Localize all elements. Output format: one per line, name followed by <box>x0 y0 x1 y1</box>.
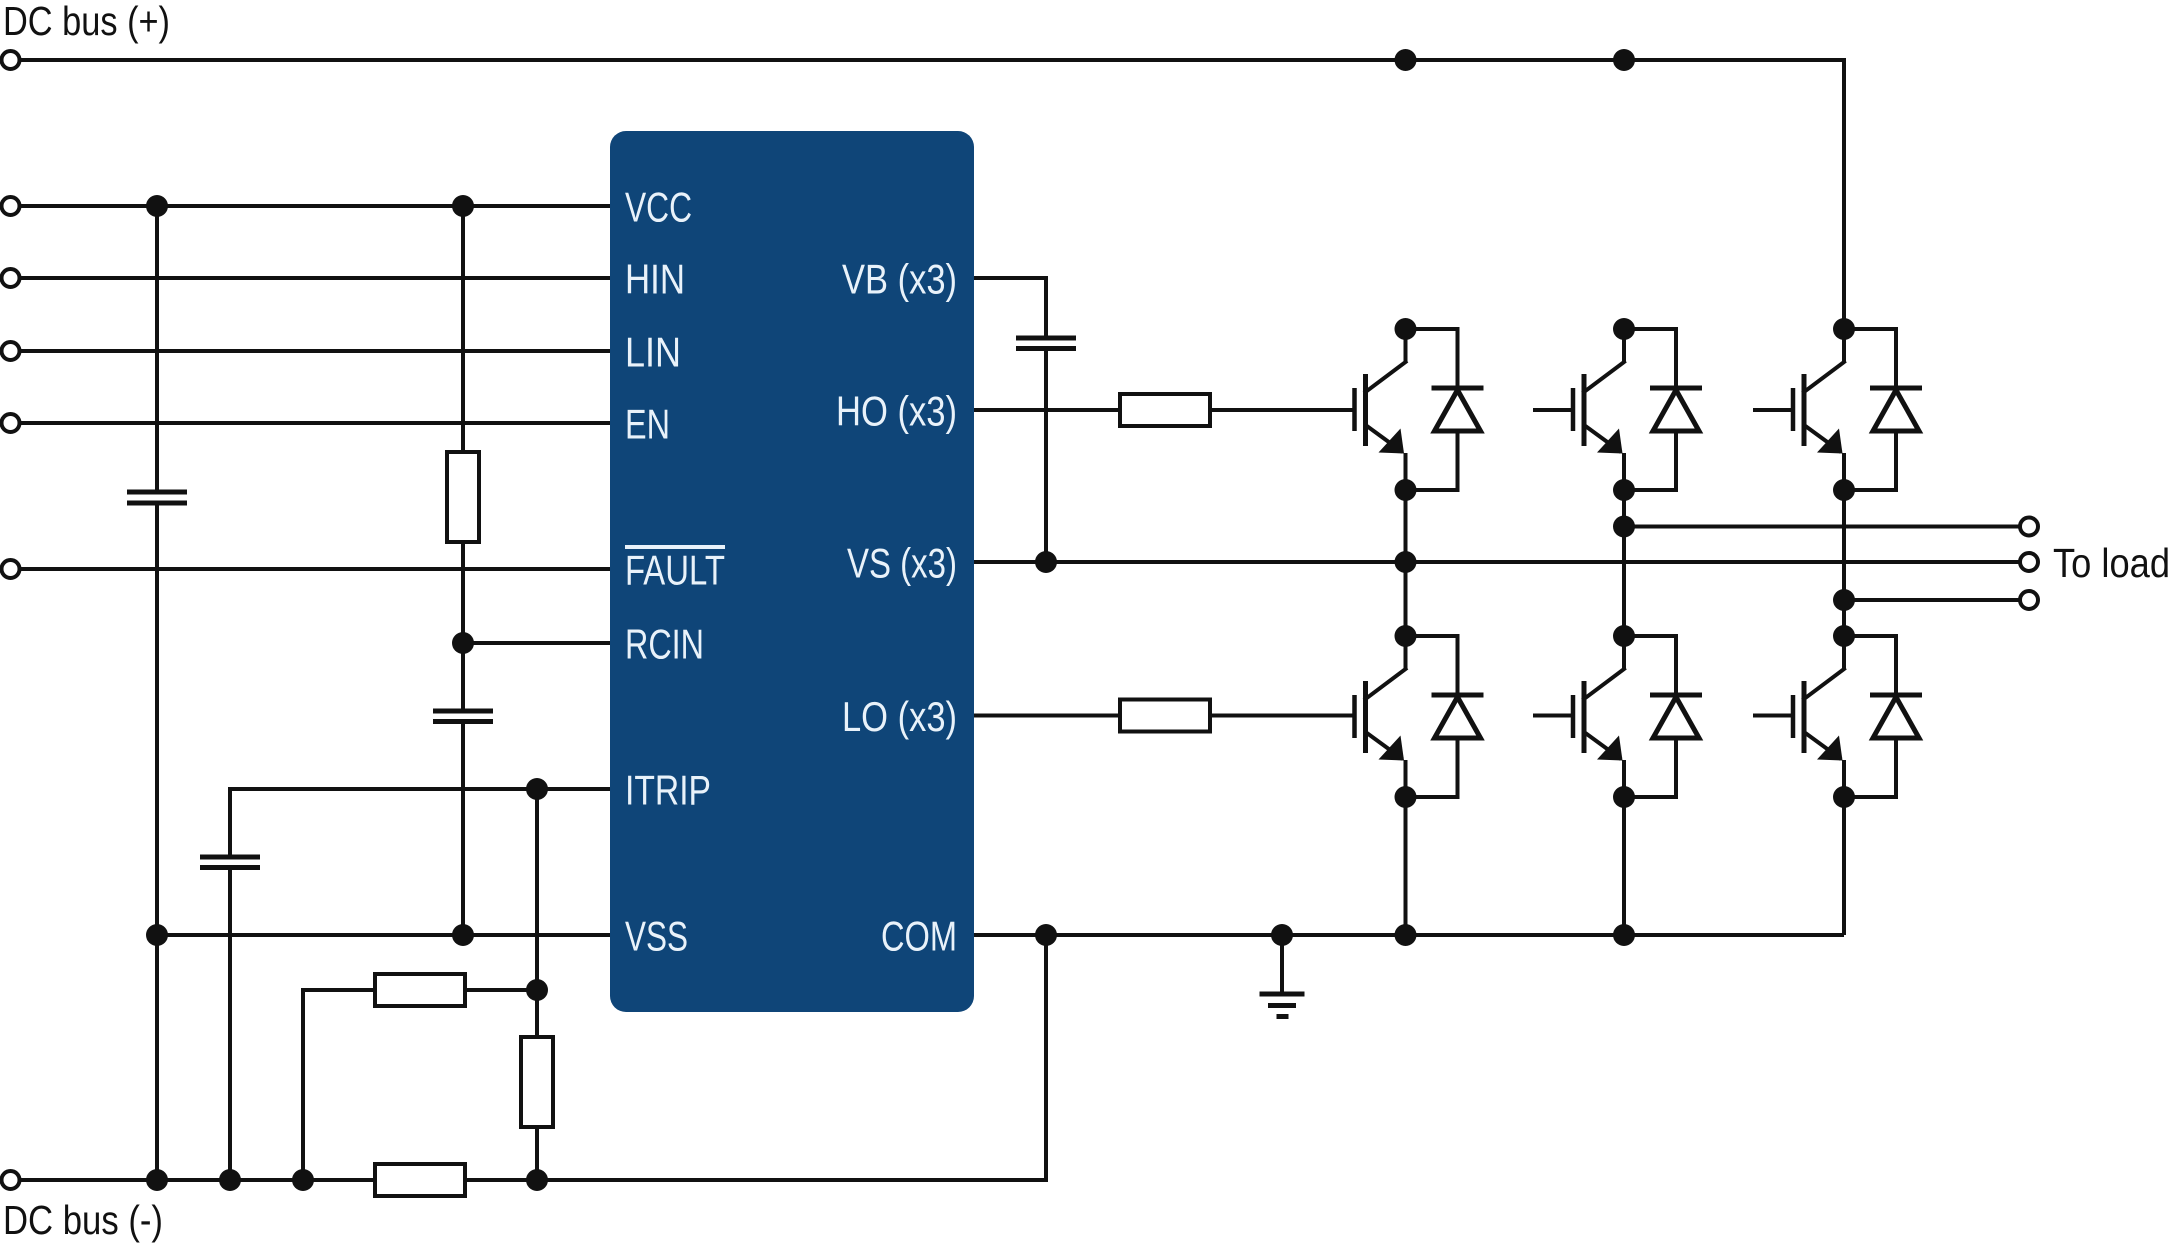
wire ITRIP line with corner <box>230 789 610 857</box>
diode D1 (free-wheeling, antiparallel to Q1) <box>1406 329 1484 490</box>
wire DC- left segment <box>20 1178 376 1182</box>
junction dot COM / DC- feed <box>1035 924 1057 946</box>
svg-text:DC bus (+): DC bus (+) <box>3 0 170 44</box>
transistor Q2 (IGBT) <box>1533 329 1624 490</box>
junction dot V5 / DC- line <box>292 1169 314 1191</box>
junction dot Q2 emitter <box>1613 479 1635 501</box>
svg-text:FAULT: FAULT <box>625 547 725 594</box>
terminal EN input <box>2 414 20 432</box>
junction dot leg3 output <box>1833 589 1855 611</box>
wire VSS line <box>157 933 610 937</box>
transistor Q3 (IGBT) <box>1753 329 1844 490</box>
terminal VCC input <box>2 197 20 215</box>
wire V2 mid segment <box>461 542 465 711</box>
junction dot Q4 collector <box>1395 625 1417 647</box>
junction dot VCC / R1 branch <box>452 195 474 217</box>
capacitor C3 (ITRIP filter) <box>200 857 260 868</box>
wire leg1 VS to lower collector <box>1404 562 1408 636</box>
junction dot V1 / VSS line <box>146 924 168 946</box>
junction dot COM / leg1 <box>1395 924 1417 946</box>
junction dot DC+ / leg2 <box>1613 49 1635 71</box>
wire COM rail <box>974 933 1844 937</box>
svg-text:VS (x3): VS (x3) <box>847 540 957 587</box>
wire phase-2 output line <box>1624 525 2020 529</box>
terminal FAULT output <box>2 560 20 578</box>
junction dot Q6 emitter <box>1833 786 1855 808</box>
diode D2 (free-wheeling, antiparallel to Q2) <box>1624 329 1702 490</box>
wire leg3 lower emitter to COM <box>1842 797 1846 935</box>
junction dot V3 / DC- line <box>219 1169 241 1191</box>
junction dot Q2 collector <box>1613 318 1635 340</box>
junction dot Q3 emitter <box>1833 479 1855 501</box>
resistor R2 (horizontal, shunt sense) <box>375 974 465 1006</box>
wire V4 segment above R3 <box>535 990 539 1037</box>
transistor Q4 (IGBT) <box>1355 636 1406 797</box>
svg-text:VCC: VCC <box>625 184 692 231</box>
junction dot VCC / C1 branch <box>146 195 168 217</box>
junction dot Q6 collector <box>1833 625 1855 647</box>
wire phase-3 output line <box>1844 598 2020 602</box>
wire FAULT line <box>20 567 611 571</box>
wire leg2 lower emitter to COM <box>1622 797 1626 935</box>
wire V2 bottom segment <box>461 722 465 936</box>
wire VCC input line <box>20 204 611 208</box>
ground symbol <box>1260 935 1305 1017</box>
svg-text:LIN: LIN <box>625 329 681 376</box>
resistor R6 (LO gate resistor) <box>1120 700 1210 732</box>
transistor Q5 (IGBT) <box>1533 636 1624 797</box>
wire leg3 output to lower collector <box>1842 600 1846 636</box>
junction dot Q3 collector <box>1833 318 1855 340</box>
junction dot RCIN node <box>452 632 474 654</box>
wire V3 lower segment <box>228 868 232 1181</box>
junction dot Q5 collector <box>1613 625 1635 647</box>
wire V2 top segment <box>461 206 465 452</box>
junction dot Q4 emitter <box>1395 786 1417 808</box>
svg-text:LO (x3): LO (x3) <box>842 693 957 740</box>
resistor R4 (in DC- rail, shunt) <box>375 1164 465 1196</box>
wire VB lead with corner <box>974 278 1046 336</box>
wire LO lead from IC <box>974 714 1120 718</box>
resistor R5 (HO gate resistor) <box>1120 394 1210 426</box>
capacitor C4 (bootstrap VB-VS) <box>1016 338 1076 349</box>
svg-text:VB (x3): VB (x3) <box>842 256 957 303</box>
capacitor C1 (VCC-VSS) <box>127 492 187 503</box>
wire leg2 emitter to output node <box>1622 490 1626 527</box>
wire R2 right lead <box>465 988 537 992</box>
junction dot leg2 output <box>1613 516 1635 538</box>
wire VS line to load <box>974 560 2020 564</box>
wire V1 upper segment <box>155 206 159 492</box>
terminal LIN input <box>2 342 20 360</box>
transistor Q1 (IGBT) <box>1355 329 1406 490</box>
terminal DC bus (-) <box>2 1171 20 1189</box>
wire DC- right segment with corner up to COM <box>465 935 1046 1180</box>
junction dot VS / leg1 output <box>1395 551 1417 573</box>
svg-text:To load: To load <box>2053 540 2170 586</box>
wire DC bus (+) rail <box>20 60 1845 329</box>
junction dot COM / leg2 <box>1613 924 1635 946</box>
svg-text:HIN: HIN <box>625 256 685 303</box>
wire HO lead from IC <box>974 408 1120 412</box>
junction dot R2/R3 node <box>526 979 548 1001</box>
wire V4 segment below R3 <box>535 1127 539 1180</box>
wire LIN input line <box>20 349 611 353</box>
wire V6 below bootstrap cap <box>1044 349 1048 563</box>
wire V1 lower segment <box>155 503 159 1180</box>
junction dot DC+ / leg1 <box>1395 49 1417 71</box>
wire leg2 output to lower collector <box>1622 527 1626 637</box>
transistor Q6 (IGBT) <box>1753 636 1844 797</box>
diode D5 (free-wheeling, antiparallel to Q5) <box>1624 636 1702 797</box>
svg-text:VSS: VSS <box>625 913 688 960</box>
diode D6 (free-wheeling, antiparallel to Q6) <box>1844 636 1922 797</box>
junction dot Q1 collector <box>1395 318 1417 340</box>
wire EN input line <box>20 421 611 425</box>
junction dot Q5 emitter <box>1613 786 1635 808</box>
junction dot bootstrap cap / VS line <box>1035 551 1057 573</box>
svg-text:EN: EN <box>625 401 670 448</box>
junction dot V4 / DC- line <box>526 1169 548 1191</box>
wire leg1 lower emitter to COM <box>1404 797 1408 935</box>
terminal load phase 3 <box>2020 591 2038 609</box>
terminal load phase 2 <box>2020 553 2038 571</box>
IC U1 three-phase gate driver body <box>610 131 974 1012</box>
terminal HIN input <box>2 269 20 287</box>
svg-text:HO (x3): HO (x3) <box>836 388 957 435</box>
junction dot V1 / DC- line <box>146 1169 168 1191</box>
diode D3 (free-wheeling, antiparallel to Q3) <box>1844 329 1922 490</box>
wire HIN input line <box>20 276 611 280</box>
resistor R3 (vertical, divider) <box>521 1037 553 1127</box>
junction dot ITRIP / R2-R3 branch <box>526 778 548 800</box>
wire leg1 emitter to VS <box>1404 490 1408 562</box>
wire V4 upper segment <box>535 789 539 990</box>
terminal load phase 1 <box>2020 518 2038 536</box>
wire RCIN pin lead <box>463 641 610 645</box>
overline of FAULT label <box>625 545 725 549</box>
wire LO to gate of Q4 <box>1210 714 1355 718</box>
terminal DC bus (+) <box>2 51 20 69</box>
svg-text:ITRIP: ITRIP <box>625 767 711 814</box>
junction dot COM / ground <box>1271 924 1293 946</box>
wire HO to gate of Q1 <box>1210 408 1355 412</box>
wire leg3 emitter to output node <box>1842 490 1846 600</box>
resistor R1 (VCC-RCIN) <box>447 452 479 542</box>
svg-text:RCIN: RCIN <box>625 621 704 668</box>
svg-text:COM: COM <box>881 913 957 960</box>
junction dot Q1 emitter <box>1395 479 1417 501</box>
junction dot V2 / VSS line <box>452 924 474 946</box>
capacitor C2 (RCIN-VSS) <box>433 711 493 722</box>
diode D4 (free-wheeling, antiparallel to Q4) <box>1406 636 1484 797</box>
svg-text:DC bus (-): DC bus (-) <box>3 1197 163 1243</box>
wire R2 left lead with corner <box>303 990 375 1180</box>
